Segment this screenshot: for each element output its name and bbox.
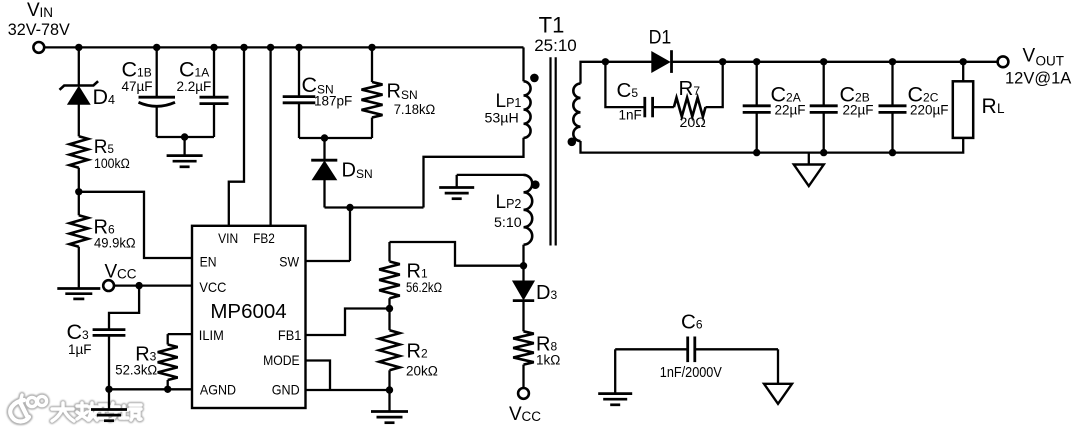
svg-text:T1: T1 (539, 13, 565, 38)
svg-text:GND: GND (272, 382, 300, 398)
svg-text:5:10: 5:10 (494, 215, 522, 231)
wire R5 to junction (78, 168, 80, 192)
svg-text:R7: R7 (679, 77, 701, 100)
wire R6 to ground (78, 247, 80, 289)
wire C2A bottom (756, 112, 758, 152)
svg-text:C1A: C1A (179, 58, 209, 82)
ground below C1 capacitors (167, 156, 203, 167)
wire GND pin (306, 389, 391, 391)
resistor R8 (513, 331, 560, 367)
wire R1 to R2 (388, 298, 390, 330)
svg-text:LP1: LP1 (496, 91, 522, 112)
svg-text:47µF: 47µF (122, 79, 153, 94)
svg-text:CC: CC (117, 267, 137, 282)
wire VCC to IC (114, 284, 192, 286)
node junction snubber DSN (321, 134, 328, 141)
node junction C2C bottom (889, 149, 896, 156)
inductor LP2 winding (494, 175, 532, 245)
resistor R3 (115, 343, 177, 380)
svg-text:C6: C6 (681, 311, 703, 334)
wire DSN to SW rail (323, 180, 325, 208)
svg-text:49.9kΩ: 49.9kΩ (94, 236, 136, 251)
wire rail to C1B (156, 47, 158, 97)
wire output ground stem (808, 153, 810, 165)
wire D4 to R5 (78, 104, 80, 136)
node junction R5 R6 EN (75, 188, 82, 195)
wire SW pin (306, 260, 351, 262)
capacitor CSN (283, 73, 353, 109)
wire RSN to snubber rail (371, 118, 373, 139)
ground below C3 (91, 410, 127, 421)
pin label VCC (199, 279, 226, 295)
label VIN voltage range (8, 21, 70, 39)
svg-text:V: V (105, 262, 118, 283)
svg-text:1kΩ: 1kΩ (536, 353, 560, 368)
wire VIN pin (229, 47, 244, 225)
resistor R6 (70, 215, 136, 250)
diode D4 zener (60, 81, 116, 109)
wire SW rail to LP1 bottom (424, 138, 524, 208)
svg-text:SW: SW (279, 254, 299, 270)
wire C3 ground stem (108, 389, 110, 409)
pin label SW (279, 254, 299, 270)
svg-text:D1: D1 (649, 28, 672, 49)
node junction C1 ground (181, 133, 188, 140)
node junction R3 ground (164, 386, 171, 393)
svg-text:V: V (509, 404, 522, 425)
wire C2C top (891, 62, 893, 106)
svg-text:MP6004: MP6004 (210, 300, 286, 323)
wire C6 ground stem right (777, 349, 779, 384)
svg-text:52.3kΩ: 52.3kΩ (115, 363, 157, 378)
svg-text:RSN: RSN (387, 81, 418, 103)
wire SW riser (349, 208, 351, 262)
wire snubber to DSN (323, 138, 325, 160)
node junction D4 branch (75, 44, 82, 51)
svg-text:187pF: 187pF (314, 94, 352, 109)
resistor R5 (70, 136, 130, 171)
wire C1B to bottom (156, 106, 158, 137)
capacitor C1A (177, 58, 229, 104)
node junction FB1 divider (386, 305, 393, 312)
svg-text:R2: R2 (407, 341, 428, 363)
wire secondary top (581, 62, 653, 84)
wire C2B bottom (823, 112, 825, 152)
wire junction to R6 (78, 192, 80, 216)
node junction C5 branch (602, 58, 609, 65)
svg-text:DSN: DSN (342, 160, 373, 182)
wire C6 right (695, 348, 778, 350)
wire FB2 pin (269, 47, 271, 225)
wire EN path (79, 192, 192, 258)
wire C5 branch (605, 62, 644, 107)
wire C1A to bottom (213, 104, 215, 137)
svg-text:1µF: 1µF (68, 342, 92, 357)
resistor R7 (674, 77, 706, 131)
wire rail to LP1 (522, 47, 524, 81)
node junction C2B top (820, 58, 827, 65)
label MP6004 (210, 300, 286, 323)
ground C6 left (598, 394, 632, 405)
svg-text:32V-78V: 32V-78V (8, 21, 70, 39)
resistor R2 (379, 330, 438, 378)
wire D3 to R8 (522, 301, 524, 332)
svg-text:CC: CC (522, 409, 542, 424)
svg-text:V: V (27, 0, 40, 21)
wire R3 to AGND rail (167, 380, 169, 389)
pin label AGND (200, 382, 236, 398)
svg-text:100kΩ: 100kΩ (94, 156, 130, 171)
svg-text:D4: D4 (93, 85, 116, 109)
capacitor C1B (122, 58, 176, 107)
wire C2B top (823, 62, 825, 106)
diode D3 (513, 281, 558, 304)
capacitor C2A (743, 83, 806, 118)
svg-text:C1B: C1B (122, 58, 152, 82)
capacitor C2B (810, 83, 874, 118)
label VOUT rating (1005, 70, 1071, 88)
wire ILIM to R3 (167, 334, 169, 344)
node junction LP2 D3 (520, 262, 527, 269)
node junction RL top (960, 58, 967, 65)
resistor RL load (953, 81, 1005, 138)
node junction C2C top (889, 58, 896, 65)
node junction VCC C3 (135, 282, 142, 289)
capacitor C5 (617, 79, 653, 123)
ground near LP2 stem (456, 175, 458, 188)
resistor RSN (362, 81, 436, 118)
svg-text:7.18kΩ: 7.18kΩ (394, 102, 436, 117)
wire LP2 to D3 (522, 266, 524, 281)
wire ILIM pin (168, 333, 192, 335)
diode D1 (649, 28, 672, 73)
wire C2A top (756, 62, 758, 106)
node junction CSN branch (295, 44, 302, 51)
wire R2 to ground rail (388, 370, 390, 390)
wire AGND rail (109, 388, 192, 390)
wire R1 top (388, 242, 390, 262)
inductor LP1 winding (485, 81, 531, 138)
svg-text:22µF: 22µF (775, 103, 806, 118)
ground below R2 (371, 412, 408, 423)
svg-text:V: V (1023, 46, 1036, 67)
node junction R7 rail (719, 58, 726, 65)
wire C6 left (615, 348, 688, 350)
node junction SW (346, 204, 353, 211)
svg-text:VCC: VCC (199, 279, 226, 295)
ground output triangle (794, 165, 824, 187)
wire C1 ground stem (183, 137, 185, 156)
wire LP2 top to ground (457, 174, 524, 176)
svg-text:MODE: MODE (263, 352, 300, 368)
wire rail to D4 (78, 47, 80, 85)
watermark logo and text (10, 395, 141, 422)
node junction FB2 branch (267, 44, 274, 51)
ground C6 right triangle (764, 384, 792, 404)
wire R1 to LP2 bottom (390, 242, 524, 266)
node junction R2 GND (386, 386, 393, 393)
svg-text:56.2kΩ: 56.2kΩ (406, 280, 442, 295)
node junction VIN pin branch (240, 44, 247, 51)
node junction C1A branch (210, 44, 217, 51)
pin label GND (272, 382, 300, 398)
svg-text:R: R (982, 95, 997, 118)
pin label VIN (218, 230, 238, 246)
node junction C2B bottom (820, 149, 827, 156)
svg-text:C3: C3 (67, 320, 90, 344)
svg-text:2.2µF: 2.2µF (177, 79, 212, 94)
diode DSN (311, 160, 372, 182)
wire top input rail (44, 46, 523, 48)
svg-text:EN: EN (200, 254, 217, 270)
label T1 ratio (534, 36, 577, 55)
wire rail to C1A (213, 47, 215, 97)
svg-text:LP2: LP2 (496, 192, 522, 213)
node junction C3 ground (105, 386, 112, 393)
svg-text:IN: IN (40, 5, 54, 20)
node junction C1B branch (153, 44, 160, 51)
wire FB1 path (306, 309, 390, 336)
wire C1 bottom rail (157, 136, 214, 138)
pin label MODE (263, 352, 300, 368)
wire R2 ground stem (388, 390, 390, 412)
svg-text:12V@1A: 12V@1A (1005, 70, 1071, 88)
svg-text:220µF: 220µF (910, 103, 949, 118)
node secondary phasing dot (568, 138, 577, 147)
svg-text:1nF: 1nF (619, 108, 642, 123)
wire R8 to VCC (522, 365, 524, 388)
svg-text:D3: D3 (536, 282, 557, 304)
wire C2C bottom (891, 112, 893, 152)
svg-text:FB1: FB1 (278, 327, 302, 343)
svg-text:OUT: OUT (1036, 54, 1065, 69)
label T1 (539, 13, 565, 38)
svg-text:25:10: 25:10 (534, 36, 577, 55)
wire RL top (962, 62, 964, 82)
wire MODE path (306, 361, 331, 391)
wire VCC junction to C3 (109, 286, 139, 330)
wire C5 to R7 (653, 106, 674, 108)
svg-text:FB2: FB2 (253, 230, 275, 246)
svg-text:ILIM: ILIM (199, 327, 224, 343)
wire C3 to AGND rail (108, 335, 110, 389)
svg-text:L: L (997, 101, 1005, 116)
node VIN input terminal (27, 0, 53, 53)
node junction C2A bottom (753, 149, 760, 156)
node LP2 phasing dot (531, 180, 540, 189)
svg-text:22µF: 22µF (843, 103, 874, 118)
resistor R1 (379, 261, 442, 299)
wire rail to RSN (371, 47, 373, 82)
svg-text:C5: C5 (617, 79, 639, 102)
svg-text:20Ω: 20Ω (680, 115, 706, 131)
svg-text:1nF/2000V: 1nF/2000V (660, 364, 722, 381)
transformer T1 core (551, 57, 556, 245)
capacitor C3 (67, 320, 126, 357)
wire D1 cathode rail (672, 61, 998, 63)
wire R7 to rail (706, 62, 723, 107)
svg-text:AGND: AGND (200, 382, 236, 398)
wire CSN to snubber rail (298, 103, 300, 138)
wire LP2 bottom (522, 245, 524, 266)
op-amp U1 MP6004 body (192, 226, 306, 408)
capacitor C2C (879, 83, 949, 118)
pin label EN (200, 254, 217, 270)
wire secondary bottom (581, 138, 964, 153)
node VCC terminal bottom (509, 388, 541, 425)
wire snubber bottom rail (299, 137, 372, 139)
wire C6 ground stem left (614, 349, 616, 393)
node junction C2A top (753, 58, 760, 65)
wire rail to CSN (298, 47, 300, 96)
pin label FB1 (278, 327, 302, 343)
node LP1 phasing dot (530, 74, 539, 83)
capacitor C6 (660, 311, 722, 382)
pin label ILIM (199, 327, 224, 343)
pin label FB2 (253, 230, 275, 246)
ground below R6 (57, 289, 100, 299)
inductor secondary winding (573, 84, 580, 141)
svg-text:53µH: 53µH (485, 111, 519, 127)
svg-text:VIN: VIN (218, 230, 238, 246)
node VOUT terminal (998, 46, 1064, 69)
wire SW horizontal rail (325, 206, 424, 208)
node junction RSN branch (368, 44, 375, 51)
svg-text:20kΩ: 20kΩ (406, 364, 438, 379)
ground near LP2 (439, 188, 474, 199)
node VCC terminal left (103, 262, 137, 292)
